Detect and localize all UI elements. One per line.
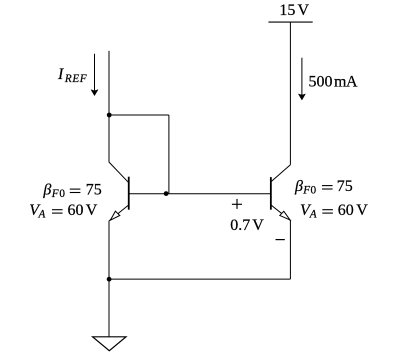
svg-text:F: F xyxy=(302,185,310,197)
wire: diode-connection loop horizontal xyxy=(109,114,169,116)
svg-text:500: 500 xyxy=(308,73,332,90)
node: collector-loop junction dot xyxy=(107,113,112,118)
label I_REF xyxy=(57,66,87,85)
svg-text:15: 15 xyxy=(279,2,295,19)
svg-text:A: A xyxy=(309,209,317,221)
current arrow 500 mA xyxy=(299,58,306,100)
wire: supply rail to Q2 collector xyxy=(289,22,291,165)
svg-text:V: V xyxy=(356,202,368,219)
wire: base bus between Q1 and Q2 xyxy=(129,193,271,195)
label beta_F0 = 75 (left) xyxy=(42,182,101,200)
svg-text:60: 60 xyxy=(68,202,84,219)
supply rail bar 15 V xyxy=(268,21,312,23)
label V_A = 60 V (right) xyxy=(300,202,368,220)
wire: Q1 emitter down to ground node xyxy=(108,221,110,337)
svg-text:0: 0 xyxy=(311,185,317,197)
svg-text:V: V xyxy=(298,2,310,19)
wire: Q2 emitter down to bus xyxy=(289,220,291,279)
svg-text:V: V xyxy=(86,202,98,219)
label 0.7 V xyxy=(230,217,264,234)
label V_A = 60 V (left) xyxy=(29,202,98,220)
transistor Q2 (right NPN, base on left) xyxy=(271,165,291,220)
svg-text:REF: REF xyxy=(64,73,87,85)
current arrow I_REF xyxy=(91,54,98,96)
svg-text:75: 75 xyxy=(337,178,353,195)
svg-text:I: I xyxy=(57,66,64,83)
label beta_F0 = 75 (right) xyxy=(294,178,353,196)
ground xyxy=(93,337,126,351)
svg-text:V: V xyxy=(252,217,264,234)
label 500 mA xyxy=(308,73,358,90)
label 15 V xyxy=(279,2,309,19)
node: emitter bus junction dot xyxy=(107,277,112,282)
node: base junction dot xyxy=(164,191,169,196)
svg-text:60: 60 xyxy=(338,202,354,219)
label plus sign of 0.7 V xyxy=(232,199,242,209)
wire: bottom emitter bus xyxy=(109,278,290,280)
svg-text:75: 75 xyxy=(86,182,102,199)
transistor Q1 (left NPN, base on right) xyxy=(109,162,129,221)
wire: top left vertical (I_REF feed to Q1 collector) xyxy=(108,51,110,162)
svg-text:A: A xyxy=(346,73,358,90)
svg-text:β: β xyxy=(42,182,51,199)
svg-text:0.7: 0.7 xyxy=(230,217,250,234)
label minus sign of 0.7 V xyxy=(276,239,285,241)
svg-text:0: 0 xyxy=(59,188,65,200)
svg-text:A: A xyxy=(38,209,46,221)
svg-text:F: F xyxy=(51,188,59,200)
wire: diode-connection loop vertical xyxy=(168,115,170,194)
svg-text:β: β xyxy=(294,178,303,195)
